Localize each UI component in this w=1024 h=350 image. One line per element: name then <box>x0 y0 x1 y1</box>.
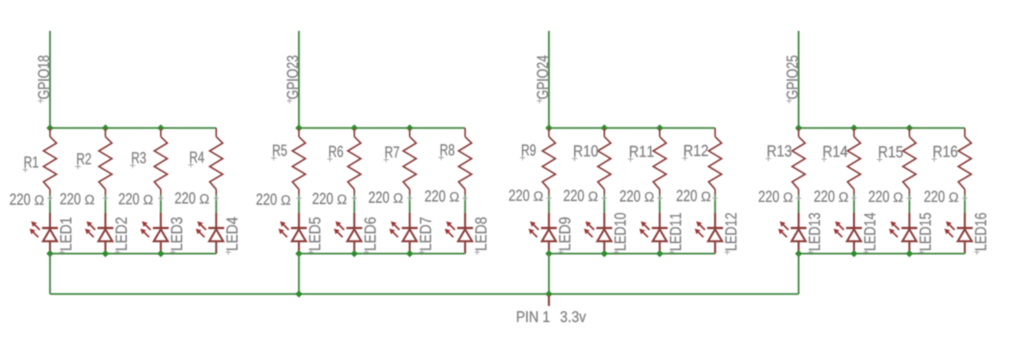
wire R10 to LED10 <box>603 195 605 213</box>
resistor R12 <box>709 128 722 195</box>
wire R1 to LED1 <box>49 195 51 213</box>
wire bottom rail group 3 <box>549 253 715 255</box>
wire R13 to LED13 <box>798 195 800 213</box>
wire GPIO18 net stub <box>49 31 51 128</box>
label LED14 <box>863 213 875 255</box>
wire 3.3V bus <box>50 293 799 295</box>
junction top rail group 4 col 3 <box>906 124 913 131</box>
wire bottom rail group 2 <box>299 253 465 255</box>
junction top rail group 1 col 1 <box>46 124 53 131</box>
wire group 3 down to 3.3V bus <box>548 254 550 294</box>
LED LED6 <box>334 213 362 254</box>
junction top rail group 4 col 1 <box>795 124 802 131</box>
wire group 4 down to 3.3V bus <box>798 254 800 294</box>
LED LED9 <box>529 213 557 254</box>
LED LED16 <box>944 213 972 254</box>
value 220 Ohm of R1 <box>10 194 53 205</box>
value 220 Ohm of R9 <box>509 190 551 201</box>
junction top rail group 3 col 3 <box>656 124 663 131</box>
LED LED11 <box>639 213 667 254</box>
junction bottom rail group 4 col 1 <box>795 250 802 257</box>
label LED15 <box>919 213 931 255</box>
label R16 <box>932 146 958 162</box>
pin stub PIN 1 <box>548 295 550 306</box>
label PIN 1 3.3v <box>517 311 586 322</box>
label LED10 <box>614 213 626 255</box>
junction top rail group 1 col 2 <box>102 124 109 131</box>
junction bus at PIN 1 <box>545 290 552 297</box>
LED LED2 <box>85 213 113 254</box>
LED LED5 <box>279 213 307 254</box>
label R14 <box>822 146 848 162</box>
label LED2 <box>115 218 127 255</box>
value 220 Ohm of R8 <box>425 190 468 201</box>
LED LED10 <box>584 213 612 254</box>
net label GPIO24 <box>537 56 548 104</box>
resistor R1 <box>44 128 57 195</box>
label R12 <box>682 145 708 161</box>
wire GPIO23 net stub <box>298 31 300 128</box>
LED LED4 <box>196 213 224 254</box>
value 220 Ohm of R10 <box>564 190 607 201</box>
label LED5 <box>308 217 320 254</box>
label LED8 <box>475 217 487 254</box>
wire R9 to LED9 <box>548 195 550 213</box>
wire R6 to LED6 <box>353 195 355 213</box>
junction bottom rail group 1 col 2 <box>102 250 109 257</box>
label R15 <box>877 146 903 162</box>
junction bus at GPIO23 branch <box>295 290 302 297</box>
label R3 <box>130 152 146 168</box>
label R1 <box>23 157 39 173</box>
label LED3 <box>170 217 182 254</box>
wire GPIO25 net stub <box>798 31 800 128</box>
wire bottom rail group 1 <box>50 253 216 255</box>
label R2 <box>75 153 91 169</box>
LED LED3 <box>140 213 168 254</box>
value 220 Ohm of R16 <box>924 191 967 202</box>
label R5 <box>271 145 287 161</box>
junction top rail group 2 col 2 <box>351 124 358 131</box>
label R13 <box>766 145 792 161</box>
label LED6 <box>364 217 376 254</box>
wire top rail group 4 <box>799 127 965 129</box>
LED LED8 <box>445 213 473 254</box>
wire R5 to LED5 <box>298 195 300 213</box>
junction bottom rail group 4 col 2 <box>850 250 857 257</box>
value 220 Ohm of R12 <box>677 190 718 201</box>
junction top rail group 2 col 3 <box>406 124 413 131</box>
wire R3 to LED3 <box>160 195 162 213</box>
junction bottom rail group 3 col 1 <box>545 250 552 257</box>
junction bottom rail group 4 col 3 <box>906 250 913 257</box>
junction bottom rail group 2 col 2 <box>351 250 358 257</box>
resistor R11 <box>653 128 666 195</box>
resistor R8 <box>459 128 472 195</box>
LED LED7 <box>389 213 417 254</box>
label R6 <box>327 146 343 162</box>
label R10 <box>572 145 598 161</box>
junction bottom rail group 3 col 2 <box>601 250 608 257</box>
resistor R9 <box>542 128 555 195</box>
label LED9 <box>558 217 570 254</box>
wire top rail group 3 <box>549 127 715 129</box>
wire GPIO24 net stub <box>548 31 550 128</box>
junction top rail group 2 col 1 <box>295 124 302 131</box>
value 220 Ohm of R4 <box>175 192 219 203</box>
wire bottom rail group 4 <box>799 253 965 255</box>
value 220 Ohm of R2 <box>60 193 108 204</box>
resistor R7 <box>403 128 416 195</box>
resistor R14 <box>848 128 861 195</box>
junction bottom rail group 2 col 3 <box>406 250 413 257</box>
wire R14 to LED14 <box>853 195 855 213</box>
junction bottom rail group 2 col 1 <box>295 250 302 257</box>
resistor R4 <box>210 128 223 195</box>
resistor R16 <box>958 128 971 195</box>
resistor R3 <box>154 128 167 195</box>
label LED13 <box>808 213 820 255</box>
value 220 Ohm of R11 <box>620 190 662 201</box>
value 220 Ohm of R7 <box>369 192 412 203</box>
resistor R5 <box>292 128 305 195</box>
wire R12 to LED12 <box>714 195 716 213</box>
resistor R2 <box>99 128 112 195</box>
resistor R6 <box>348 128 361 195</box>
wire R7 to LED7 <box>409 195 411 213</box>
wire R4 to LED4 <box>215 195 217 213</box>
LED LED1 <box>30 213 58 254</box>
wire R8 to LED8 <box>464 195 466 213</box>
resistor R10 <box>598 128 611 195</box>
net label GPIO25 <box>787 56 798 104</box>
label LED4 <box>226 217 238 255</box>
label LED7 <box>419 218 431 255</box>
label R4 <box>188 152 204 168</box>
LED LED14 <box>834 213 862 254</box>
value 220 Ohm of R13 <box>759 191 801 202</box>
junction top rail group 1 col 3 <box>157 124 164 131</box>
net label GPIO18 <box>38 56 49 104</box>
LED LED12 <box>695 213 723 254</box>
wire R15 to LED15 <box>908 195 910 213</box>
label LED1 <box>59 218 71 255</box>
wire R16 to LED16 <box>964 195 966 213</box>
wire top rail group 2 <box>299 127 465 129</box>
value 220 Ohm of R15 <box>869 191 912 202</box>
label LED16 <box>974 213 986 255</box>
wire R11 to LED11 <box>659 195 661 213</box>
label R9 <box>520 144 536 160</box>
resistor R13 <box>792 128 805 195</box>
wire top rail group 1 <box>50 127 216 129</box>
net label GPIO23 <box>287 56 298 104</box>
value 220 Ohm of R3 <box>119 193 163 204</box>
value 220 Ohm of R6 <box>313 193 357 204</box>
label R7 <box>384 147 400 163</box>
junction top rail group 3 col 2 <box>601 124 608 131</box>
LED LED13 <box>778 213 806 254</box>
value 220 Ohm of R14 <box>814 191 856 202</box>
label LED12 <box>725 213 737 255</box>
junction top rail group 3 col 1 <box>545 124 552 131</box>
wire group 1 down to 3.3V bus <box>49 254 51 294</box>
wire R2 to LED2 <box>104 195 106 213</box>
label R11 <box>628 146 654 162</box>
resistor R15 <box>903 128 916 195</box>
junction bottom rail group 1 col 1 <box>46 250 53 257</box>
value 220 Ohm of R5 <box>257 194 302 205</box>
junction bottom rail group 3 col 3 <box>656 250 663 257</box>
label LED11 <box>669 213 681 255</box>
wire group 2 down to 3.3V bus <box>298 254 300 294</box>
LED LED15 <box>889 213 917 254</box>
junction bottom rail group 1 col 3 <box>157 250 164 257</box>
junction top rail group 4 col 2 <box>850 124 857 131</box>
label R8 <box>439 144 455 160</box>
